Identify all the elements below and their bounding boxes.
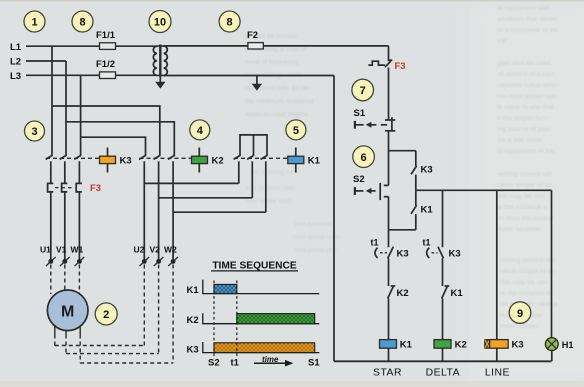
svg-text:V2: V2 <box>150 245 161 255</box>
svg-text:S2: S2 <box>353 174 365 185</box>
F3 link and label <box>55 183 101 194</box>
svg-text:STAR: STAR <box>373 368 402 379</box>
wire star branch lower <box>388 298 390 339</box>
svg-text:this may be nec: this may be nec <box>500 279 548 286</box>
node L3 <box>10 71 21 82</box>
svg-text:K2: K2 <box>212 156 224 167</box>
fuse F2 <box>247 30 263 49</box>
svg-text:wd alshang tres: wd alshang tres <box>249 169 298 176</box>
chart label S2 <box>208 358 220 369</box>
svg-text:ration torque of an: ration torque of an <box>500 268 555 275</box>
K2 mechanical link <box>140 157 192 159</box>
overload F3 heater 2 <box>62 183 68 259</box>
chart K2 bar <box>237 314 315 324</box>
svg-text:F1/1: F1/1 <box>96 30 116 41</box>
chart time arrow <box>254 355 293 367</box>
svg-text:3: 3 <box>31 126 37 138</box>
chart label t1 <box>231 358 240 369</box>
wire line branch <box>496 190 498 339</box>
contactor K1 pole 2 <box>247 155 254 198</box>
svg-text:at the instance a: at the instance a <box>497 204 547 211</box>
contactor K1 pole 3 <box>261 155 268 212</box>
svg-text:U2: U2 <box>134 245 145 255</box>
wire L3 drop <box>80 75 82 155</box>
wire W2 strap (dashed) <box>172 265 174 364</box>
label DELTA <box>426 368 460 379</box>
svg-text:knee of frequency: knee of frequency <box>245 59 300 66</box>
coil K3 (LINE) <box>485 339 524 350</box>
svg-text:DELTA: DELTA <box>426 368 460 379</box>
svg-text:ansitions that allows: ansitions that allows <box>497 16 558 23</box>
contactor K3 pole 1 <box>46 155 53 183</box>
chart K3 row label <box>187 344 199 355</box>
overload F3 heater 3 <box>76 183 82 259</box>
svg-text:nt equipment with: nt equipment with <box>497 5 550 12</box>
svg-text:K3: K3 <box>449 248 461 259</box>
svg-text:mall some valid: mall some valid <box>245 198 292 205</box>
svg-text:K2: K2 <box>187 315 199 326</box>
wire left rail <box>333 76 335 362</box>
svg-text:K1: K1 <box>187 285 200 296</box>
chart title TIME SEQUENCE <box>211 260 298 271</box>
svg-text:2: 2 <box>103 309 109 321</box>
label STAR <box>373 368 402 379</box>
svg-text:F1/2: F1/2 <box>96 59 115 70</box>
chart K1 bar <box>214 284 237 293</box>
svg-text:K1: K1 <box>308 156 321 167</box>
chart dashed marker S2 <box>213 281 215 357</box>
contact K1 interlock (NC) <box>442 286 464 299</box>
callout 10 <box>149 11 171 33</box>
callout 1 <box>24 11 45 32</box>
fuse F1/1 <box>96 30 116 49</box>
svg-text:K1: K1 <box>451 288 464 299</box>
svg-text:netting current will: netting current will <box>500 257 555 264</box>
K3 mechanical link <box>46 157 100 159</box>
contactor K3 pole 2 <box>60 155 67 183</box>
terminal V1 <box>56 245 70 267</box>
wire strap motor to V2 (dashed) <box>66 353 159 355</box>
wire K1 pole2 to V2 <box>159 197 253 199</box>
svg-text:and antenna: and antenna <box>294 221 332 228</box>
svg-text:t1: t1 <box>231 358 240 369</box>
svg-text:8: 8 <box>79 17 85 29</box>
wire L1 line <box>26 45 157 47</box>
timed contact t1 K3 (star branch) <box>371 237 409 259</box>
chart K1 axis <box>203 280 319 294</box>
svg-text:5: 5 <box>293 125 299 137</box>
callout 4 <box>190 120 210 140</box>
node L1 <box>10 42 22 53</box>
wire K1 pole1 to U2 <box>144 182 239 184</box>
wire bottom rail <box>334 360 552 362</box>
callout 6 <box>353 146 375 168</box>
wire K2 coil to rail <box>442 348 444 361</box>
wire node B <box>389 229 416 231</box>
contactor K2 pole 1 <box>139 155 146 259</box>
svg-text:le value is one that: le value is one that <box>497 104 554 111</box>
svg-text:K3: K3 <box>512 339 524 350</box>
svg-text:ration torque of an: ration torque of an <box>497 182 552 189</box>
svg-text:nelli some poli: nelli some poli <box>294 247 338 254</box>
svg-text:K2: K2 <box>455 339 467 350</box>
svg-text:the minimum response: the minimum response <box>245 98 314 105</box>
motor M <box>47 290 88 335</box>
svg-text:K3: K3 <box>120 156 132 167</box>
chart dashed marker t1 <box>236 281 238 357</box>
svg-text:kW.: kW. <box>497 38 508 45</box>
pushbutton S1 (stop, NC) <box>354 108 396 132</box>
wire L3 line <box>26 74 157 76</box>
wire L2 line <box>26 60 66 62</box>
wire star branch upper <box>388 230 390 247</box>
svg-text:at the instance a: at the instance a <box>500 290 550 297</box>
svg-text:L3: L3 <box>10 71 21 82</box>
wire strap motor to U2 (dashed) <box>55 345 145 347</box>
callout 5 <box>286 120 306 140</box>
wire L2 to K2 pole 3 <box>66 122 174 155</box>
coil K1 (STAR) <box>380 339 413 350</box>
transformer T1 <box>153 45 167 77</box>
svg-text:H1: H1 <box>562 340 574 350</box>
svg-text:t1: t1 <box>371 237 379 247</box>
chart label S1 <box>308 358 320 369</box>
svg-text:K3: K3 <box>397 248 409 259</box>
wire L1 drop <box>51 46 53 155</box>
terminal U1 <box>40 245 56 267</box>
svg-text:t1: t1 <box>423 237 431 247</box>
svg-text:or a consumer to be: or a consumer to be <box>497 27 558 34</box>
svg-text:TIME SEQUENCE: TIME SEQUENCE <box>212 260 297 271</box>
wire L3 to K2 pole 1 <box>81 137 146 155</box>
chart K2 row label <box>187 315 199 326</box>
svg-text:K2: K2 <box>397 288 409 299</box>
wire U2 strap (dashed) <box>143 265 145 346</box>
svg-text:4: 4 <box>197 125 204 137</box>
svg-text:10: 10 <box>154 17 166 29</box>
svg-text:LINE: LINE <box>485 368 510 379</box>
svg-text:S1: S1 <box>308 358 320 369</box>
svg-text:W2: W2 <box>164 245 177 255</box>
ground arrow under transformer <box>155 77 165 89</box>
wire H1 to rail <box>551 351 553 362</box>
node L2 <box>10 57 21 68</box>
contactor K3 pole 3 <box>74 155 81 183</box>
wire secondary bottom line <box>164 75 334 77</box>
svg-text:ceptable value when: ceptable value when <box>497 82 559 89</box>
contactor K1 pole 1 <box>234 155 241 183</box>
callout 3 <box>25 121 45 141</box>
svg-text:K1: K1 <box>400 339 413 350</box>
wire motor lead 2 (dashed) <box>65 335 67 354</box>
wire motor lead 3 (dashed) <box>79 335 81 364</box>
contact K3 aux (hold) <box>411 151 433 191</box>
contactor K1 star bridge <box>240 135 267 155</box>
fuse F1/2 <box>96 59 116 79</box>
wire control feed drop <box>388 46 390 61</box>
K1 mechanical link <box>234 157 288 159</box>
wire S2 to node B <box>388 197 390 230</box>
svg-text:K3: K3 <box>187 344 199 355</box>
chart K1 row label <box>187 285 200 296</box>
contact K2 interlock (NC) <box>388 286 409 299</box>
terminal U2 <box>134 245 150 267</box>
svg-text:M: M <box>61 304 74 321</box>
chart K2 axis <box>203 313 319 324</box>
wire delta branch upper <box>442 190 444 247</box>
overload F3 heater 1 <box>48 183 54 259</box>
svg-text:L2: L2 <box>10 57 21 68</box>
contact K1 aux <box>411 190 433 230</box>
wire K3 coil to rail <box>496 348 498 361</box>
chart K3 bar <box>214 343 315 353</box>
coil K1 (power) <box>288 148 321 173</box>
terminal W2 <box>164 245 178 267</box>
wire K1 pole3 to W2 <box>173 211 266 213</box>
svg-text:V1: V1 <box>56 245 67 255</box>
label LINE <box>485 368 510 379</box>
wire K1 coil to rail <box>388 348 390 361</box>
svg-text:ns from the central: ns from the central <box>497 215 554 222</box>
wire V1 to motor (dashed) <box>64 265 66 291</box>
wire F3 to S1 <box>388 68 390 121</box>
wire star branch mid <box>388 258 390 286</box>
wire V2 strap (dashed) <box>158 265 160 354</box>
callout 2 <box>95 303 117 325</box>
svg-text:K1: K1 <box>421 204 434 215</box>
svg-text:ise a few more: ise a few more <box>497 137 541 144</box>
overload contact F3 (control) <box>368 60 405 72</box>
svg-text:8: 8 <box>227 17 233 29</box>
contactor K2 pole 2 <box>153 155 160 259</box>
wire secondary top line <box>164 45 389 47</box>
svg-text:time: time <box>262 355 279 364</box>
coil K2 (DELTA) <box>434 339 467 350</box>
svg-text:n the proper func: n the proper func <box>497 115 549 122</box>
svg-text:W1: W1 <box>71 245 84 255</box>
wire delta branch lower <box>442 298 444 339</box>
wire motor lead 1 (dashed) <box>54 335 56 346</box>
svg-text:gain also be used: gain also be used <box>497 60 551 67</box>
svg-text:6: 6 <box>361 152 367 164</box>
wire rail node C <box>416 189 552 191</box>
wire strap motor to W2 (dashed) <box>80 362 173 364</box>
wire L1 to K2 pole 2 <box>52 106 160 155</box>
svg-text:S1: S1 <box>354 108 366 119</box>
wire S1 to node A <box>388 131 390 186</box>
terminal V2 <box>150 245 164 267</box>
wire lamp branch <box>551 190 553 338</box>
terminal W1 <box>71 245 85 267</box>
contactor K2 pole 3 <box>168 155 175 259</box>
coil K2 (power) <box>192 148 224 173</box>
svg-text:ing source of pow: ing source of pow <box>497 126 550 133</box>
svg-text:troller weather: troller weather <box>497 226 541 233</box>
timed contact t1 K3 (delta branch) <box>423 237 461 259</box>
svg-text:nt equipment in the: nt equipment in the <box>497 148 555 155</box>
svg-text:rns must power sup: rns must power sup <box>497 93 557 100</box>
ground arrow on bottom secondary line <box>252 76 262 91</box>
svg-text:netting current will: netting current will <box>497 171 552 178</box>
svg-text:F2: F2 <box>247 30 258 41</box>
svg-text:U1: U1 <box>40 245 51 255</box>
svg-text:F3: F3 <box>90 183 101 194</box>
lamp H1 <box>545 338 573 351</box>
svg-text:troller awaits: troller awaits <box>500 323 539 330</box>
wire W1 to motor (dashed) <box>78 265 80 295</box>
svg-text:leads on-load engine: leads on-load engine <box>245 111 308 118</box>
svg-text:S2: S2 <box>208 358 220 369</box>
callout 8 (fuse group) <box>72 11 93 32</box>
callout 7 <box>352 79 374 101</box>
svg-text:F3: F3 <box>395 61 406 72</box>
pushbutton S2 (start, NO) <box>353 174 389 200</box>
chart K3 axis <box>203 342 319 353</box>
svg-text:sh current of a con: sh current of a con <box>497 71 554 78</box>
wire delta branch mid <box>442 258 444 286</box>
callout 8 (fuse F2) <box>219 11 240 32</box>
svg-text:1: 1 <box>31 17 37 29</box>
svg-text:9: 9 <box>517 308 523 320</box>
svg-text:L1: L1 <box>10 42 22 53</box>
wire L2 drop <box>65 61 67 155</box>
coil K3 (power) <box>100 148 132 173</box>
svg-text:7: 7 <box>360 85 366 97</box>
callout 9 <box>509 302 531 324</box>
wire U1 to motor (dashed) <box>50 265 52 295</box>
svg-text:K3: K3 <box>421 165 433 176</box>
svg-text:this may be nec: this may be nec <box>497 193 545 200</box>
wire node A branch <box>389 150 416 152</box>
